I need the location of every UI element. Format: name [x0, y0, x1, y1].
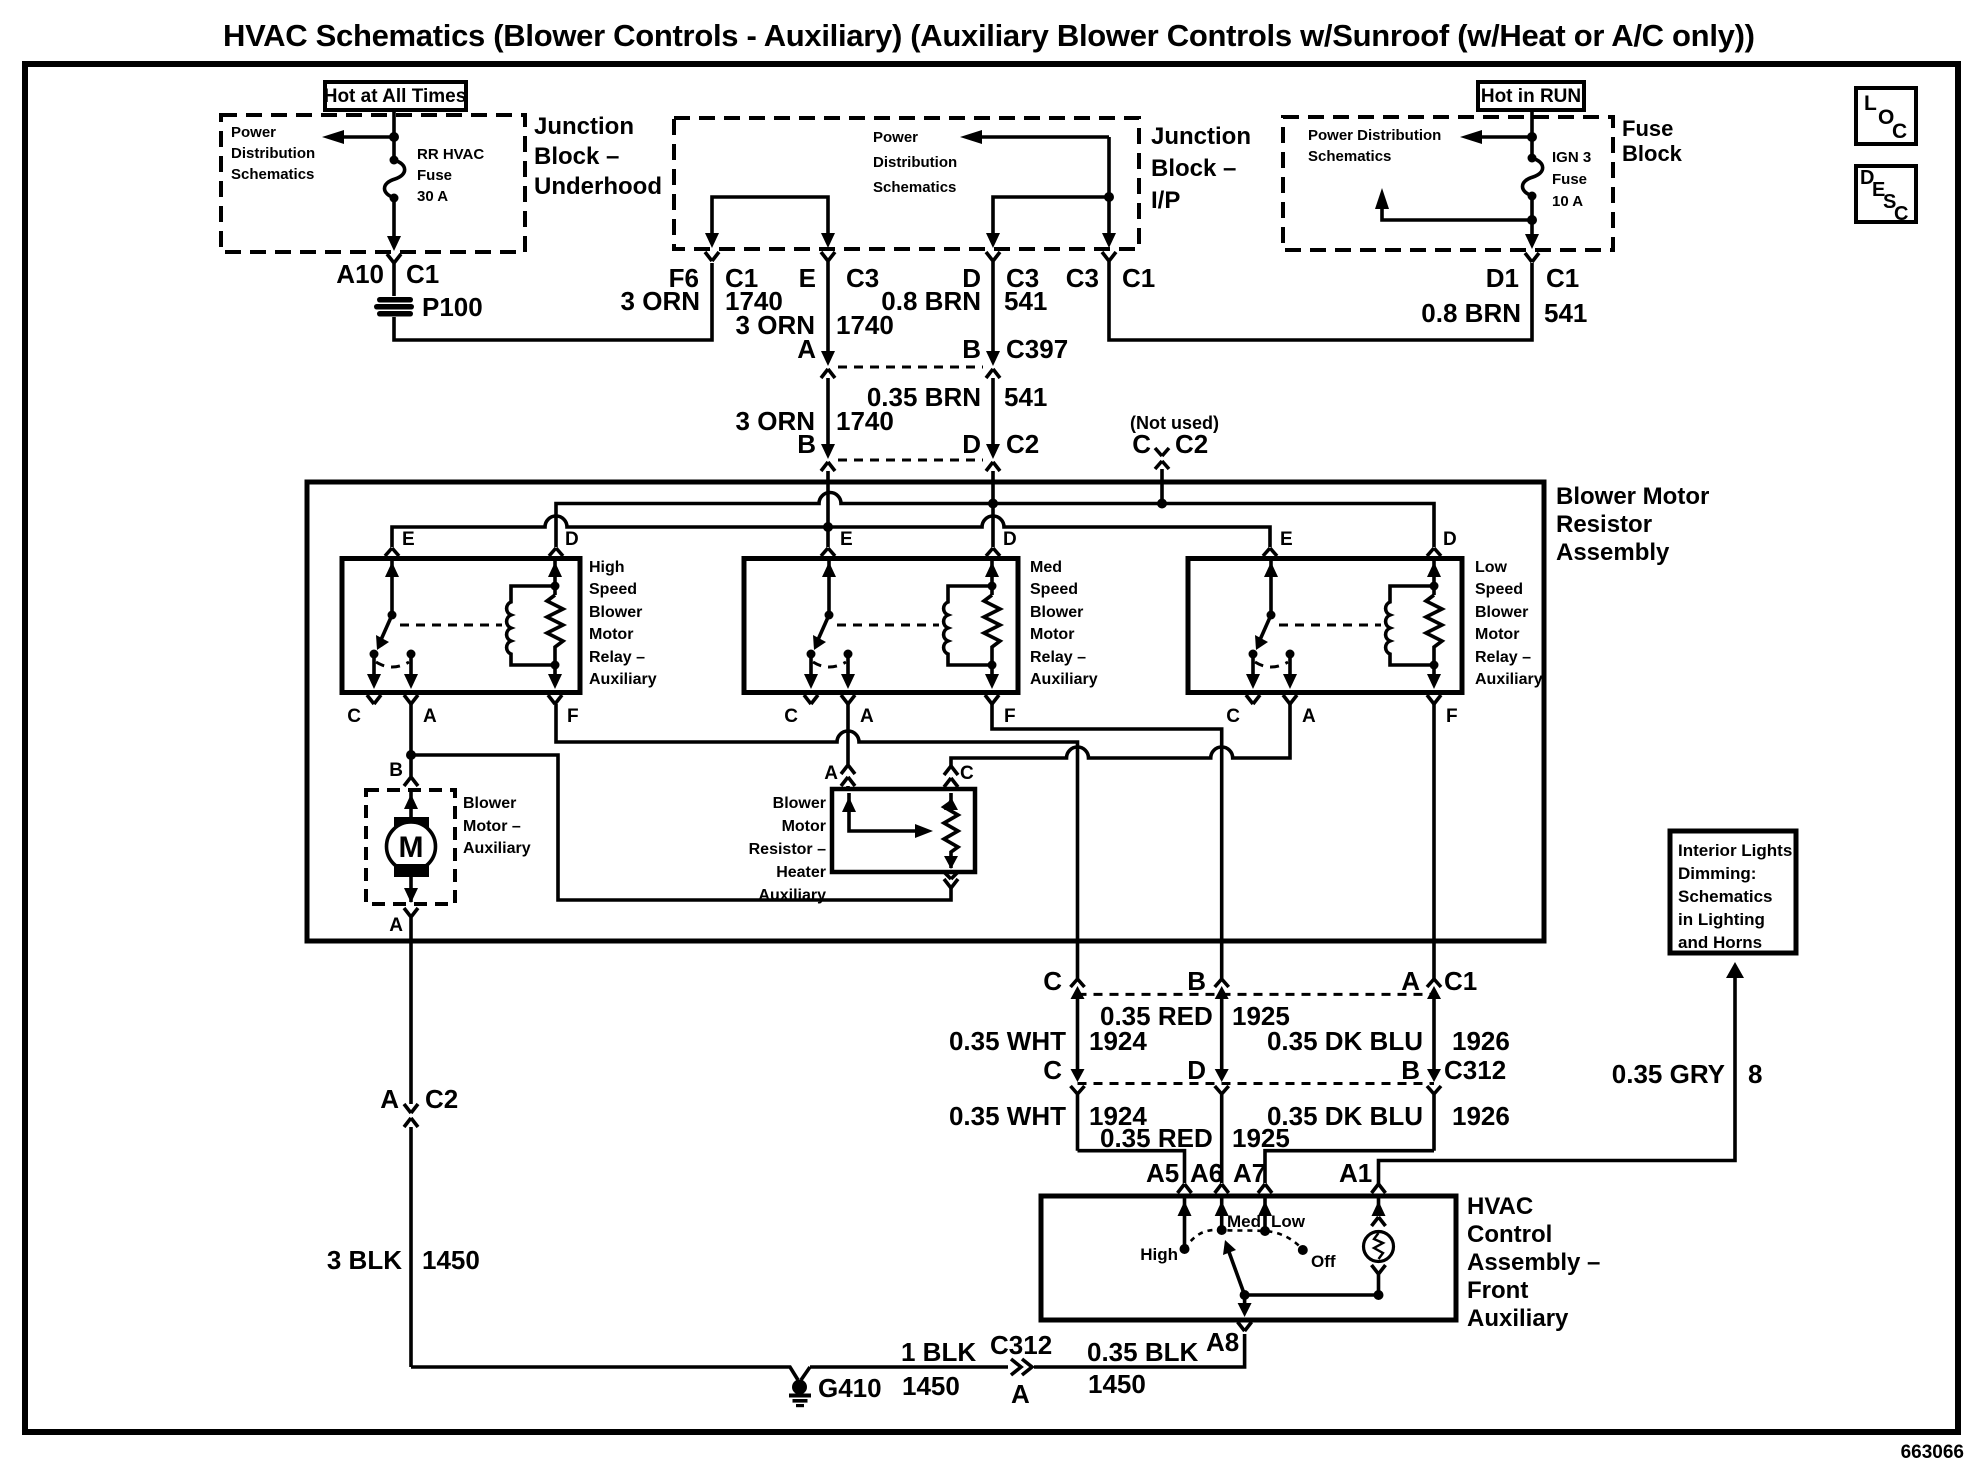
svg-text:Blower: Blower [1030, 604, 1083, 621]
svg-text:B: B [962, 334, 981, 364]
text Blower Motor Resistor Assembly [1556, 483, 1709, 566]
svg-text:3 BLK: 3 BLK [327, 1245, 402, 1275]
relay terminal forks E and D (high) [385, 548, 399, 556]
wire DK BLU to A7 [1265, 1151, 1434, 1183]
svg-text:L: L [1864, 92, 1877, 115]
svg-text:D: D [1443, 529, 1457, 550]
svg-text:Low: Low [1271, 1212, 1306, 1231]
svg-text:C312: C312 [990, 1330, 1052, 1360]
wire high F to 0.35 WHT drop [556, 704, 1078, 980]
svg-text:C: C [1043, 1055, 1062, 1085]
svg-text:C312: C312 [1444, 1055, 1506, 1085]
svg-text:0.35 RED: 0.35 RED [1100, 1123, 1213, 1153]
blower motor dashed box [366, 790, 455, 904]
svg-text:A: A [1401, 966, 1420, 996]
svg-text:Junction: Junction [534, 113, 634, 140]
svg-text:Schematics: Schematics [1308, 148, 1391, 165]
dashed box fuse block [1283, 117, 1613, 250]
connector fork A below motor [404, 908, 418, 1104]
svg-text:M: M [399, 831, 424, 864]
junction dot bus E / med E wire [823, 522, 833, 532]
relay terminal forks E and D (low) [1263, 548, 1277, 556]
label box Hot at All Times [324, 82, 467, 110]
wire G410 to C312 to A8 [810, 1334, 1245, 1367]
svg-text:Control: Control [1467, 1221, 1552, 1248]
svg-text:Blower: Blower [1475, 604, 1528, 621]
svg-text:541: 541 [1544, 298, 1587, 328]
switch contact dots High Med Low Off [1180, 1244, 1190, 1254]
bus D (541 feed) with hop over med E wire [556, 493, 1434, 548]
relay terminal forks E and D (med) [821, 548, 835, 556]
wiper to A8 out [1243, 1295, 1247, 1310]
svg-text:C397: C397 [1006, 334, 1068, 364]
interior lights dimming box [1670, 831, 1796, 953]
arrow to power distribution [340, 135, 394, 139]
svg-text:B: B [1187, 966, 1206, 996]
svg-text:Relay –: Relay – [1030, 649, 1086, 666]
svg-text:Low: Low [1475, 559, 1508, 576]
svg-text:1926: 1926 [1452, 1101, 1510, 1131]
label box Hot in RUN [1478, 82, 1584, 110]
splice P100 [374, 297, 414, 317]
svg-text:Blower: Blower [463, 795, 516, 812]
svg-text:1740: 1740 [836, 310, 894, 340]
fuse RR HVAC 30 A [392, 137, 396, 158]
wire down out of fuse block [1530, 220, 1534, 238]
svg-text:541: 541 [1004, 286, 1047, 316]
connector forks below junction block [705, 252, 719, 261]
svg-text:Fuse: Fuse [1552, 171, 1587, 188]
connector fork A10 C1 [387, 254, 401, 296]
wire low F down (0.35 DK BLU) [1432, 704, 1436, 980]
svg-text:HVAC: HVAC [1467, 1193, 1533, 1220]
svg-text:1450: 1450 [1088, 1369, 1146, 1399]
svg-text:Auxiliary: Auxiliary [1467, 1305, 1569, 1332]
svg-text:C2: C2 [425, 1084, 458, 1114]
junction dot bus D / 0.35 BRN [988, 499, 998, 509]
dashed rotary arc [1185, 1230, 1303, 1250]
svg-text:A5: A5 [1146, 1158, 1179, 1188]
wire med F to 0.35 RED drop [992, 704, 1222, 980]
svg-text:I/P: I/P [1151, 187, 1180, 214]
svg-text:High: High [589, 559, 625, 576]
svg-text:D: D [1003, 529, 1017, 550]
svg-text:Distribution: Distribution [873, 154, 957, 171]
svg-text:Fuse: Fuse [1622, 116, 1673, 141]
svg-text:G410: G410 [818, 1373, 882, 1403]
svg-text:Auxiliary: Auxiliary [758, 887, 826, 904]
svg-text:Relay –: Relay – [1475, 649, 1531, 666]
junction dot bus D / not used C2 [1157, 499, 1167, 509]
svg-text:541: 541 [1004, 382, 1047, 412]
svg-text:D: D [1187, 1055, 1206, 1085]
wire wiper to lamp [1245, 1293, 1379, 1297]
svg-text:A: A [380, 1084, 399, 1114]
control box [1041, 1196, 1456, 1320]
svg-text:Schematics: Schematics [873, 179, 956, 196]
LOC reference box [1856, 88, 1916, 144]
arrow into interior lights box [1726, 962, 1744, 978]
svg-text:Motor –: Motor – [463, 818, 521, 835]
wire WHT to A5 [1078, 1151, 1185, 1183]
svg-text:A: A [824, 763, 838, 784]
svg-text:in Lighting: in Lighting [1678, 910, 1765, 929]
dashed connector line C1 [1078, 993, 1435, 996]
text Interior Lights Dimming Schematics in Lighting and Horns [1678, 841, 1792, 952]
DESC reference box [1856, 166, 1916, 225]
svg-text:D: D [565, 529, 579, 550]
text IGN 3 Fuse 10 A [1552, 149, 1591, 210]
svg-text:Front: Front [1467, 1277, 1528, 1304]
svg-text:E: E [402, 529, 415, 550]
svg-text:A1: A1 [1339, 1158, 1372, 1188]
text Power Distribution Schematics [1308, 127, 1441, 165]
svg-text:Block –: Block – [1151, 155, 1236, 182]
svg-text:Assembly: Assembly [1556, 539, 1670, 566]
heater resistor box [832, 789, 975, 872]
ground run to G410 [411, 1367, 798, 1380]
svg-text:Block: Block [1622, 141, 1683, 166]
svg-text:RR HVAC: RR HVAC [417, 146, 484, 163]
svg-text:Hot in RUN: Hot in RUN [1481, 86, 1581, 107]
blower motor M symbol [409, 790, 413, 818]
svg-text:0.35 DK BLU: 0.35 DK BLU [1267, 1101, 1423, 1131]
svg-text:Motor: Motor [1030, 626, 1074, 643]
svg-text:A: A [389, 915, 403, 936]
svg-text:0.35 BLK: 0.35 BLK [1087, 1337, 1198, 1367]
svg-text:1925: 1925 [1232, 1123, 1290, 1153]
svg-text:1 BLK: 1 BLK [901, 1337, 976, 1367]
connector fork D1 C1 [1525, 253, 1539, 262]
svg-text:Distribution: Distribution [231, 145, 315, 162]
wire A1 up right to interior lights [1379, 976, 1736, 1184]
ground G410 symbol [792, 1380, 807, 1395]
junction dot node B [406, 750, 416, 760]
svg-text:30 A: 30 A [417, 188, 448, 205]
svg-text:3 ORN: 3 ORN [621, 286, 700, 316]
arrow feed to power distribution [978, 135, 1109, 139]
svg-text:Dimming:: Dimming: [1678, 864, 1756, 883]
fork at heater resistor bottom [944, 872, 958, 888]
svg-text:Power Distribution: Power Distribution [1308, 127, 1441, 144]
svg-text:C3: C3 [846, 263, 879, 293]
svg-text:Relay –: Relay – [589, 649, 645, 666]
svg-text:1740: 1740 [836, 406, 894, 436]
svg-text:Motor: Motor [782, 818, 826, 835]
svg-text:C1: C1 [1122, 263, 1155, 293]
svg-text:1450: 1450 [422, 1245, 480, 1275]
svg-text:B: B [389, 760, 403, 781]
svg-text:Auxiliary: Auxiliary [589, 671, 657, 688]
svg-text:E: E [799, 263, 816, 293]
svg-text:1450: 1450 [902, 1371, 960, 1401]
svg-text:A10: A10 [336, 259, 384, 289]
svg-text:8: 8 [1748, 1059, 1762, 1089]
svg-text:Speed: Speed [589, 581, 637, 598]
text RR HVAC Fuse 30 A [417, 146, 484, 205]
text Junction Block I/P [1151, 123, 1251, 214]
text Junction Block Underhood [534, 113, 662, 200]
wiper junction dot [1240, 1290, 1250, 1300]
svg-text:C1: C1 [1444, 966, 1477, 996]
svg-text:D1: D1 [1486, 263, 1519, 293]
assembly box [307, 482, 1544, 941]
svg-text:C: C [1892, 120, 1907, 143]
svg-text:IGN 3: IGN 3 [1552, 149, 1591, 166]
svg-text:Junction: Junction [1151, 123, 1251, 150]
svg-text:C2: C2 [1175, 429, 1208, 459]
wire high A down to node B [409, 704, 413, 755]
svg-text:Fuse: Fuse [417, 167, 452, 184]
switch position wires A5 A6 A7 [1183, 1198, 1187, 1248]
svg-text:C3: C3 [1066, 263, 1099, 293]
svg-text:Speed: Speed [1475, 581, 1523, 598]
svg-text:HVAC Schematics (Blower Contro: HVAC Schematics (Blower Controls - Auxil… [223, 18, 1755, 53]
text High Speed Blower Motor Relay Auxiliary [589, 559, 657, 688]
dashed box Power Distribution Schematics (underhood) [221, 115, 525, 252]
svg-text:A8: A8 [1206, 1327, 1239, 1357]
svg-text:0.8 BRN: 0.8 BRN [1421, 298, 1521, 328]
svg-text:Auxiliary: Auxiliary [463, 840, 531, 857]
dashed box junction block I/P [674, 118, 1139, 249]
svg-text:Speed: Speed [1030, 581, 1078, 598]
svg-text:Resistor –: Resistor – [749, 841, 826, 858]
text Med Speed Blower Motor Relay Auxiliary [1030, 559, 1098, 688]
svg-text:1926: 1926 [1452, 1026, 1510, 1056]
svg-text:Block –: Block – [534, 143, 619, 170]
svg-text:1924: 1924 [1089, 1026, 1147, 1056]
svg-text:Heater: Heater [776, 864, 826, 881]
svg-text:Motor: Motor [1475, 626, 1519, 643]
wire C1 feed with junction [1107, 137, 1111, 197]
wire heater resistor C up and right to low A [951, 704, 1290, 768]
relay box high speed [342, 559, 580, 693]
med speed relay internals [784, 560, 1015, 727]
svg-text:Med: Med [1227, 1212, 1261, 1231]
arrow to power distribution [1478, 135, 1532, 139]
text Blower Motor Resistor Heater Auxiliary [749, 795, 826, 904]
svg-text:A: A [797, 334, 816, 364]
low speed relay internals [1226, 560, 1457, 727]
text Low Speed Blower Motor Relay Auxiliary [1475, 559, 1543, 688]
svg-text:Schematics: Schematics [231, 166, 314, 183]
text Blower Motor Auxiliary [463, 795, 531, 857]
relay box low speed [1188, 559, 1462, 693]
text Power Distribution Schematics [231, 124, 315, 183]
wire from Hot in RUN down [1530, 110, 1534, 137]
svg-text:Power: Power [231, 124, 276, 141]
svg-text:C: C [1043, 966, 1062, 996]
svg-text:C: C [1894, 203, 1908, 225]
svg-text:Schematics: Schematics [1678, 887, 1773, 906]
row C1 forks and arrows [1071, 979, 1442, 1070]
connector fork C at heater resistor [944, 766, 958, 775]
branch arrow up inside fuse block [1527, 215, 1537, 225]
wire med A to heater resistor [841, 704, 855, 774]
dashed connector line C312 [1078, 1082, 1435, 1085]
svg-text:Hot at All Times: Hot at All Times [324, 86, 467, 107]
heater resistor internals [849, 793, 916, 831]
svg-text:Blower: Blower [773, 795, 826, 812]
svg-text:C: C [960, 763, 974, 784]
svg-text:0.8 BRN: 0.8 BRN [881, 286, 981, 316]
svg-text:E: E [840, 529, 853, 550]
svg-text:0.35 WHT: 0.35 WHT [949, 1026, 1066, 1056]
svg-text:D: D [962, 429, 981, 459]
illumination lamp [1377, 1198, 1381, 1214]
svg-text:C1: C1 [1546, 263, 1579, 293]
svg-text:B: B [797, 429, 816, 459]
svg-text:10 A: 10 A [1552, 193, 1583, 210]
svg-text:Blower: Blower [589, 604, 642, 621]
svg-text:B: B [1401, 1055, 1420, 1085]
svg-text:A: A [1011, 1379, 1030, 1409]
wire P100 down right to junction block F6 [394, 263, 712, 340]
tent A1 [1372, 1184, 1386, 1193]
svg-text:Auxiliary: Auxiliary [1030, 671, 1098, 688]
svg-text:E: E [1280, 529, 1293, 550]
text Power Distribution Schematics [873, 129, 957, 196]
svg-text:0.35 DK BLU: 0.35 DK BLU [1267, 1026, 1423, 1056]
svg-text:Blower Motor: Blower Motor [1556, 483, 1709, 510]
svg-text:and Horns: and Horns [1678, 933, 1762, 952]
svg-text:0.35 GRY: 0.35 GRY [1612, 1059, 1725, 1089]
svg-text:663066: 663066 [1901, 1442, 1964, 1463]
row C312 arrows and forks [1071, 1069, 1442, 1183]
bridge wire F6 to E [712, 197, 828, 237]
bus E (1740 feed) with hops over D drops [392, 516, 1270, 547]
wire node B to heater resistor bottom [411, 755, 951, 900]
high speed relay internals [347, 560, 578, 727]
junction dot [389, 132, 399, 142]
fuse IGN 3 10 A [1530, 137, 1534, 156]
svg-text:Motor: Motor [589, 626, 633, 643]
svg-text:Power: Power [873, 129, 918, 146]
relay box med speed [744, 559, 1018, 693]
svg-text:Med: Med [1030, 559, 1062, 576]
svg-text:Underhood: Underhood [534, 173, 662, 200]
svg-text:A7: A7 [1233, 1158, 1266, 1188]
svg-text:C: C [1132, 429, 1151, 459]
svg-text:C2: C2 [1006, 429, 1039, 459]
svg-text:0.35 WHT: 0.35 WHT [949, 1101, 1066, 1131]
svg-text:C1: C1 [406, 259, 439, 289]
svg-text:A6: A6 [1190, 1158, 1223, 1188]
tents A5 A6 A7 [1178, 1184, 1192, 1193]
svg-text:Assembly –: Assembly – [1467, 1249, 1600, 1276]
text HVAC Control Assembly Front Auxiliary [1467, 1193, 1600, 1332]
switch wiper arm [1229, 1252, 1245, 1295]
fork A8 below control box [1238, 1322, 1252, 1331]
svg-text:Resistor: Resistor [1556, 511, 1652, 538]
svg-text:Off: Off [1311, 1252, 1336, 1271]
text Fuse Block [1622, 116, 1683, 166]
connector tent into blower motor [404, 755, 418, 786]
svg-text:Interior Lights: Interior Lights [1678, 841, 1792, 860]
svg-text:Auxiliary: Auxiliary [1475, 671, 1543, 688]
svg-text:P100: P100 [422, 292, 483, 322]
inline connector C312 chevrons [1011, 1359, 1032, 1375]
wire from Hot at All Times down [392, 110, 396, 137]
svg-text:High: High [1140, 1245, 1178, 1264]
